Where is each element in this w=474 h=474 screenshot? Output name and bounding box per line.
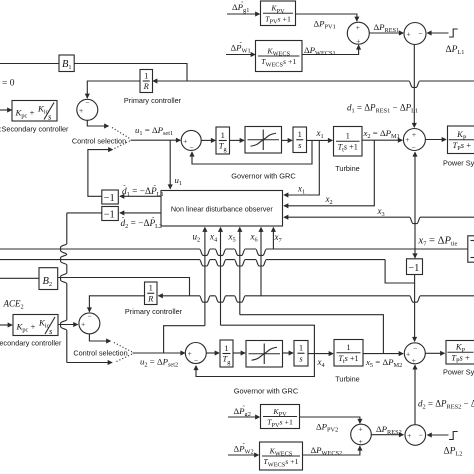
block K_WECS/(T_WECS s+1) area2 xyxy=(260,442,303,470)
block power system 2 xyxy=(446,341,474,365)
wire left edge to B1 xyxy=(0,63,74,65)
svg-text:x6​: x6​ xyxy=(250,232,258,244)
svg-text:ΔPWECS1​: ΔPWECS1​ xyxy=(304,45,336,57)
svg-text:u1​: u1​ xyxy=(175,175,183,187)
svg-text:+: + xyxy=(183,136,188,145)
svg-text:ΔPL1​: ΔPL1​ xyxy=(446,45,465,56)
svg-text:+: + xyxy=(356,37,361,46)
step input ΔP_L1 xyxy=(449,29,458,37)
wire d1 from L1 summer to power summer 1 xyxy=(413,45,415,128)
wire to GRC 1 xyxy=(230,139,245,141)
svg-text:x3​: x3​ xyxy=(377,206,385,218)
block secondary controller PI area1 xyxy=(12,101,57,122)
svg-text:+: + xyxy=(411,130,416,139)
svg-text:Primary controller: Primary controller xyxy=(125,307,183,316)
svg-text:+: + xyxy=(358,425,363,434)
wire Δf2 up to B2 line xyxy=(58,278,190,296)
wire u1 to governor summer xyxy=(131,139,181,141)
svg-text:−: − xyxy=(418,431,423,440)
block turbine 2 xyxy=(334,340,363,367)
svg-text:x1​: x1​ xyxy=(316,128,324,140)
svg-text:1: 1 xyxy=(224,343,228,353)
svg-text:−: − xyxy=(189,143,194,152)
svg-text:−: − xyxy=(412,344,417,353)
svg-text:Secondary controller: Secondary controller xyxy=(0,339,62,348)
svg-text:x1​: x1​ xyxy=(297,184,305,196)
wire tie line H1 to left edge xyxy=(0,249,468,255)
svg-text:x4​: x4​ xyxy=(317,357,326,369)
svg-text:u2​ = ΔPset2​: u2​ = ΔPset2​ xyxy=(140,357,178,369)
wire ΔP̂_W1 to WECS block xyxy=(226,54,255,56)
svg-text:ACE2​: ACE2​ xyxy=(3,299,24,311)
wire u2 tap to observer riser xyxy=(164,326,205,353)
svg-text:−: − xyxy=(85,98,90,107)
summer secondary area2 xyxy=(79,313,100,334)
wire x3 line from right edge to observer xyxy=(284,217,474,223)
block 1/R area1 xyxy=(140,70,153,93)
svg-text:+: + xyxy=(405,349,410,358)
wire observer out d1 to -1 block xyxy=(120,195,161,197)
wire x6 riser to observer xyxy=(260,228,262,297)
svg-text:+: + xyxy=(358,437,363,446)
svg-text:I:Secondary controller: I:Secondary controller xyxy=(0,125,69,134)
wire a12 tie branch H2 to left edge xyxy=(385,260,415,283)
svg-text:x2​ = ΔPM1​: x2​ = ΔPM1​ xyxy=(363,128,400,140)
svg-text:−: − xyxy=(411,143,416,152)
wire x1 to turbine 1 xyxy=(307,139,333,141)
svg-text:Governor with GRC: Governor with GRC xyxy=(231,172,296,181)
block power system 1 xyxy=(448,126,474,154)
summer governor 2 xyxy=(185,343,206,364)
wire to GRC 2 xyxy=(233,352,245,354)
svg-text:+: + xyxy=(80,319,85,328)
wire x5 riser to observer xyxy=(239,228,241,315)
wire ΔP_WECS2 to summer xyxy=(303,446,360,455)
svg-text:1: 1 xyxy=(149,283,153,293)
svg-text:+: + xyxy=(78,106,83,115)
svg-text:Turbine: Turbine xyxy=(335,164,359,173)
svg-text:Control selection: Control selection xyxy=(72,137,126,146)
wire u1 tap to observer xyxy=(169,140,171,189)
wire power summer 1 to power system block xyxy=(425,139,446,141)
wire GRC to integrator 2 xyxy=(283,352,294,354)
block GRC saturation area2 xyxy=(246,341,283,368)
svg-text:−1: −1 xyxy=(104,193,115,204)
wire secondary box 2 to summer xyxy=(58,324,78,326)
svg-text:Turbine: Turbine xyxy=(335,375,359,384)
block B1 xyxy=(59,55,74,72)
wire ΔP_RES2 xyxy=(371,434,403,436)
svg-text:x4​: x4​ xyxy=(209,232,218,244)
svg-text:Governor with GRC: Governor with GRC xyxy=(234,387,299,396)
summer power system 1 xyxy=(403,129,425,151)
svg-text:Primary controller: Primary controller xyxy=(124,96,182,105)
wire u2 to governor summer 2 xyxy=(133,352,185,354)
svg-text:ΔPPV2​: ΔPPV2​ xyxy=(316,422,338,434)
svg-text:1: 1 xyxy=(221,130,225,140)
svg-text:−: − xyxy=(193,356,198,365)
svg-text:+: + xyxy=(405,135,410,144)
svg-text:d2​ = ΔPRES2​ − ΔPL2​: d2​ = ΔPRES2​ − ΔPL2​ xyxy=(418,399,474,411)
svg-text:u2​: u2​ xyxy=(193,232,201,244)
summer power system 2 xyxy=(404,343,425,364)
svg-text:+: + xyxy=(187,349,192,358)
svg-text:d1​ = ΔPRES1​ − ΔPL1​: d1​ = ΔPRES1​ − ΔPL1​ xyxy=(347,103,418,115)
block -1 tie xyxy=(407,259,423,275)
svg-text:+: + xyxy=(407,431,412,440)
svg-text:1: 1 xyxy=(299,343,303,353)
wire governor 1 rate feedback xyxy=(192,140,312,164)
wire Δf1 feedback line xyxy=(153,81,474,87)
svg-text:ΔPL2​: ΔPL2​ xyxy=(444,447,463,458)
wire 1/R2 out to secondary summer 2 top xyxy=(89,296,144,312)
svg-text:s: s xyxy=(49,326,53,336)
svg-text:x7​ = ΔPtie​: x7​ = ΔPtie​ xyxy=(418,236,458,248)
wire secondary summer 2 out to switch xyxy=(89,334,110,341)
svg-text:x7​: x7​ xyxy=(274,232,282,244)
wire B1 to feedback tap xyxy=(74,64,187,82)
step input ΔP_L2 xyxy=(449,432,458,440)
block 1/s area1 xyxy=(293,127,307,153)
svg-text:x5​ = ΔPM2​: x5​ = ΔPM2​ xyxy=(365,357,402,369)
svg-text:+: + xyxy=(406,29,411,38)
svg-text:R: R xyxy=(147,293,154,303)
wire ΔP̂_g2 to PV block 2 xyxy=(228,416,260,418)
wire x1 tap to observer xyxy=(284,140,319,195)
svg-text:x2​: x2​ xyxy=(325,194,333,206)
summer L1 xyxy=(404,23,426,45)
svg-text:1: 1 xyxy=(346,132,350,141)
svg-text:−1: −1 xyxy=(408,263,419,274)
wire B2 left xyxy=(0,277,39,279)
block -1 upper xyxy=(102,190,119,204)
svg-text:−: − xyxy=(87,312,92,321)
block 1/R area2 xyxy=(145,282,158,305)
wire ΔP_PV1 to summer xyxy=(296,14,357,21)
wire x4 to turbine 2 xyxy=(308,353,333,355)
wire x7 riser to observer xyxy=(272,228,274,250)
wire ΔP̂_W2 to WECS block 2 xyxy=(228,454,259,456)
switch dashes control selection 1 xyxy=(112,128,131,140)
block 1/s area2 xyxy=(294,341,308,367)
svg-text:ΔPPV1​: ΔPPV1​ xyxy=(314,19,336,31)
svg-text:Power System: Power System xyxy=(443,368,474,377)
svg-text:d1​ = −ΔPL1​: d1​ = −ΔPL1​ xyxy=(122,187,164,198)
wire x5 to power summer 2 xyxy=(363,353,403,355)
wire left edge to secondary controller 1 xyxy=(0,109,12,111)
wire ΔP_RES1 xyxy=(369,32,403,34)
wire -1 tie out to power summer 2 xyxy=(414,275,416,342)
block tie line at right edge xyxy=(468,236,474,262)
svg-text:Non linear disturbance observe: Non linear disturbance observer xyxy=(171,205,273,214)
wire 1/R out to secondary summer top xyxy=(87,81,140,98)
svg-text:−1: −1 xyxy=(104,210,115,221)
wire x2 tap to observer xyxy=(284,140,374,206)
summer RES2 xyxy=(351,424,372,445)
block GRC saturation area1 xyxy=(245,127,282,154)
wire ΔP_WECS1 to summer xyxy=(302,45,359,54)
wire x4 tap to observer riser xyxy=(221,325,315,353)
svg-text:+: + xyxy=(411,356,416,365)
svg-text:1: 1 xyxy=(298,129,302,139)
svg-text:−: − xyxy=(418,29,423,38)
summer governor 1 xyxy=(181,130,201,150)
svg-text:= 0: = 0 xyxy=(2,79,15,89)
svg-text:ΔPRES1​: ΔPRES1​ xyxy=(374,22,400,34)
block B2 xyxy=(39,268,58,290)
wire dhat1 throw to switch xyxy=(88,150,113,197)
block K_WECS/(T_WECS s+1) area1 xyxy=(256,41,303,72)
block 1/Tg area1 xyxy=(216,127,230,154)
wire GRC to integrator 1 xyxy=(282,139,293,141)
block 1/Tg area2 xyxy=(220,340,233,367)
wire dhat2 vertical to switch area2 xyxy=(67,212,102,214)
block secondary controller PI area2 xyxy=(13,315,58,336)
summer secondary area1 xyxy=(77,99,98,120)
wire Δf2 feedback H3 xyxy=(159,296,474,302)
wire x4 riser to observer xyxy=(220,228,222,326)
summer RES1 xyxy=(347,22,369,44)
svg-text:d2​ = −ΔPL2​: d2​ = −ΔPL2​ xyxy=(121,219,163,230)
svg-text:u1​ = ΔPset1​: u1​ = ΔPset1​ xyxy=(135,125,173,137)
block K_PV/(T_PV s+1) area1 xyxy=(261,1,296,26)
wire ΔP̂_g1 to PV block xyxy=(227,13,260,15)
block turbine 1 xyxy=(334,127,363,157)
svg-text:Control selection: Control selection xyxy=(73,349,127,358)
wire tie to -1 block xyxy=(414,249,416,258)
block nonlinear disturbance observer xyxy=(161,191,283,227)
svg-text:s: s xyxy=(48,112,52,122)
block K_PV/(T_PV s+1) area2 xyxy=(261,405,300,429)
wire governor summer 1 to 1/Tg xyxy=(201,139,215,141)
svg-text:x5​: x5​ xyxy=(228,232,236,244)
svg-text:Power System: Power System xyxy=(443,159,474,168)
summer L2 xyxy=(405,425,426,446)
wire ΔP_PV2 to summer xyxy=(300,417,360,423)
wire secondary summer 1 out to switch xyxy=(87,120,108,126)
wire observer out d2 to -1 block xyxy=(120,212,161,214)
wire power summer 2 to power system block xyxy=(425,352,444,354)
wire tie feedback into power summer 1 minus xyxy=(414,152,416,249)
svg-text:+: + xyxy=(355,23,360,32)
wire d2 to power summer 2 xyxy=(414,365,416,424)
wire governor 2 rate feedback xyxy=(196,354,314,377)
wire u2 riser to observer xyxy=(204,228,206,326)
wire x5 tap to observer riser xyxy=(240,315,384,354)
wire x2 to power summer 1 xyxy=(362,139,402,141)
switch dashes control selection 2 xyxy=(114,343,133,353)
block -1 lower xyxy=(102,207,119,221)
wire left edge to secondary controller 2 xyxy=(0,324,12,326)
svg-text:1: 1 xyxy=(144,70,148,80)
wire governor summer 2 to 1/Tg xyxy=(206,352,219,354)
svg-text:R: R xyxy=(143,81,150,91)
svg-text:1: 1 xyxy=(346,343,350,352)
